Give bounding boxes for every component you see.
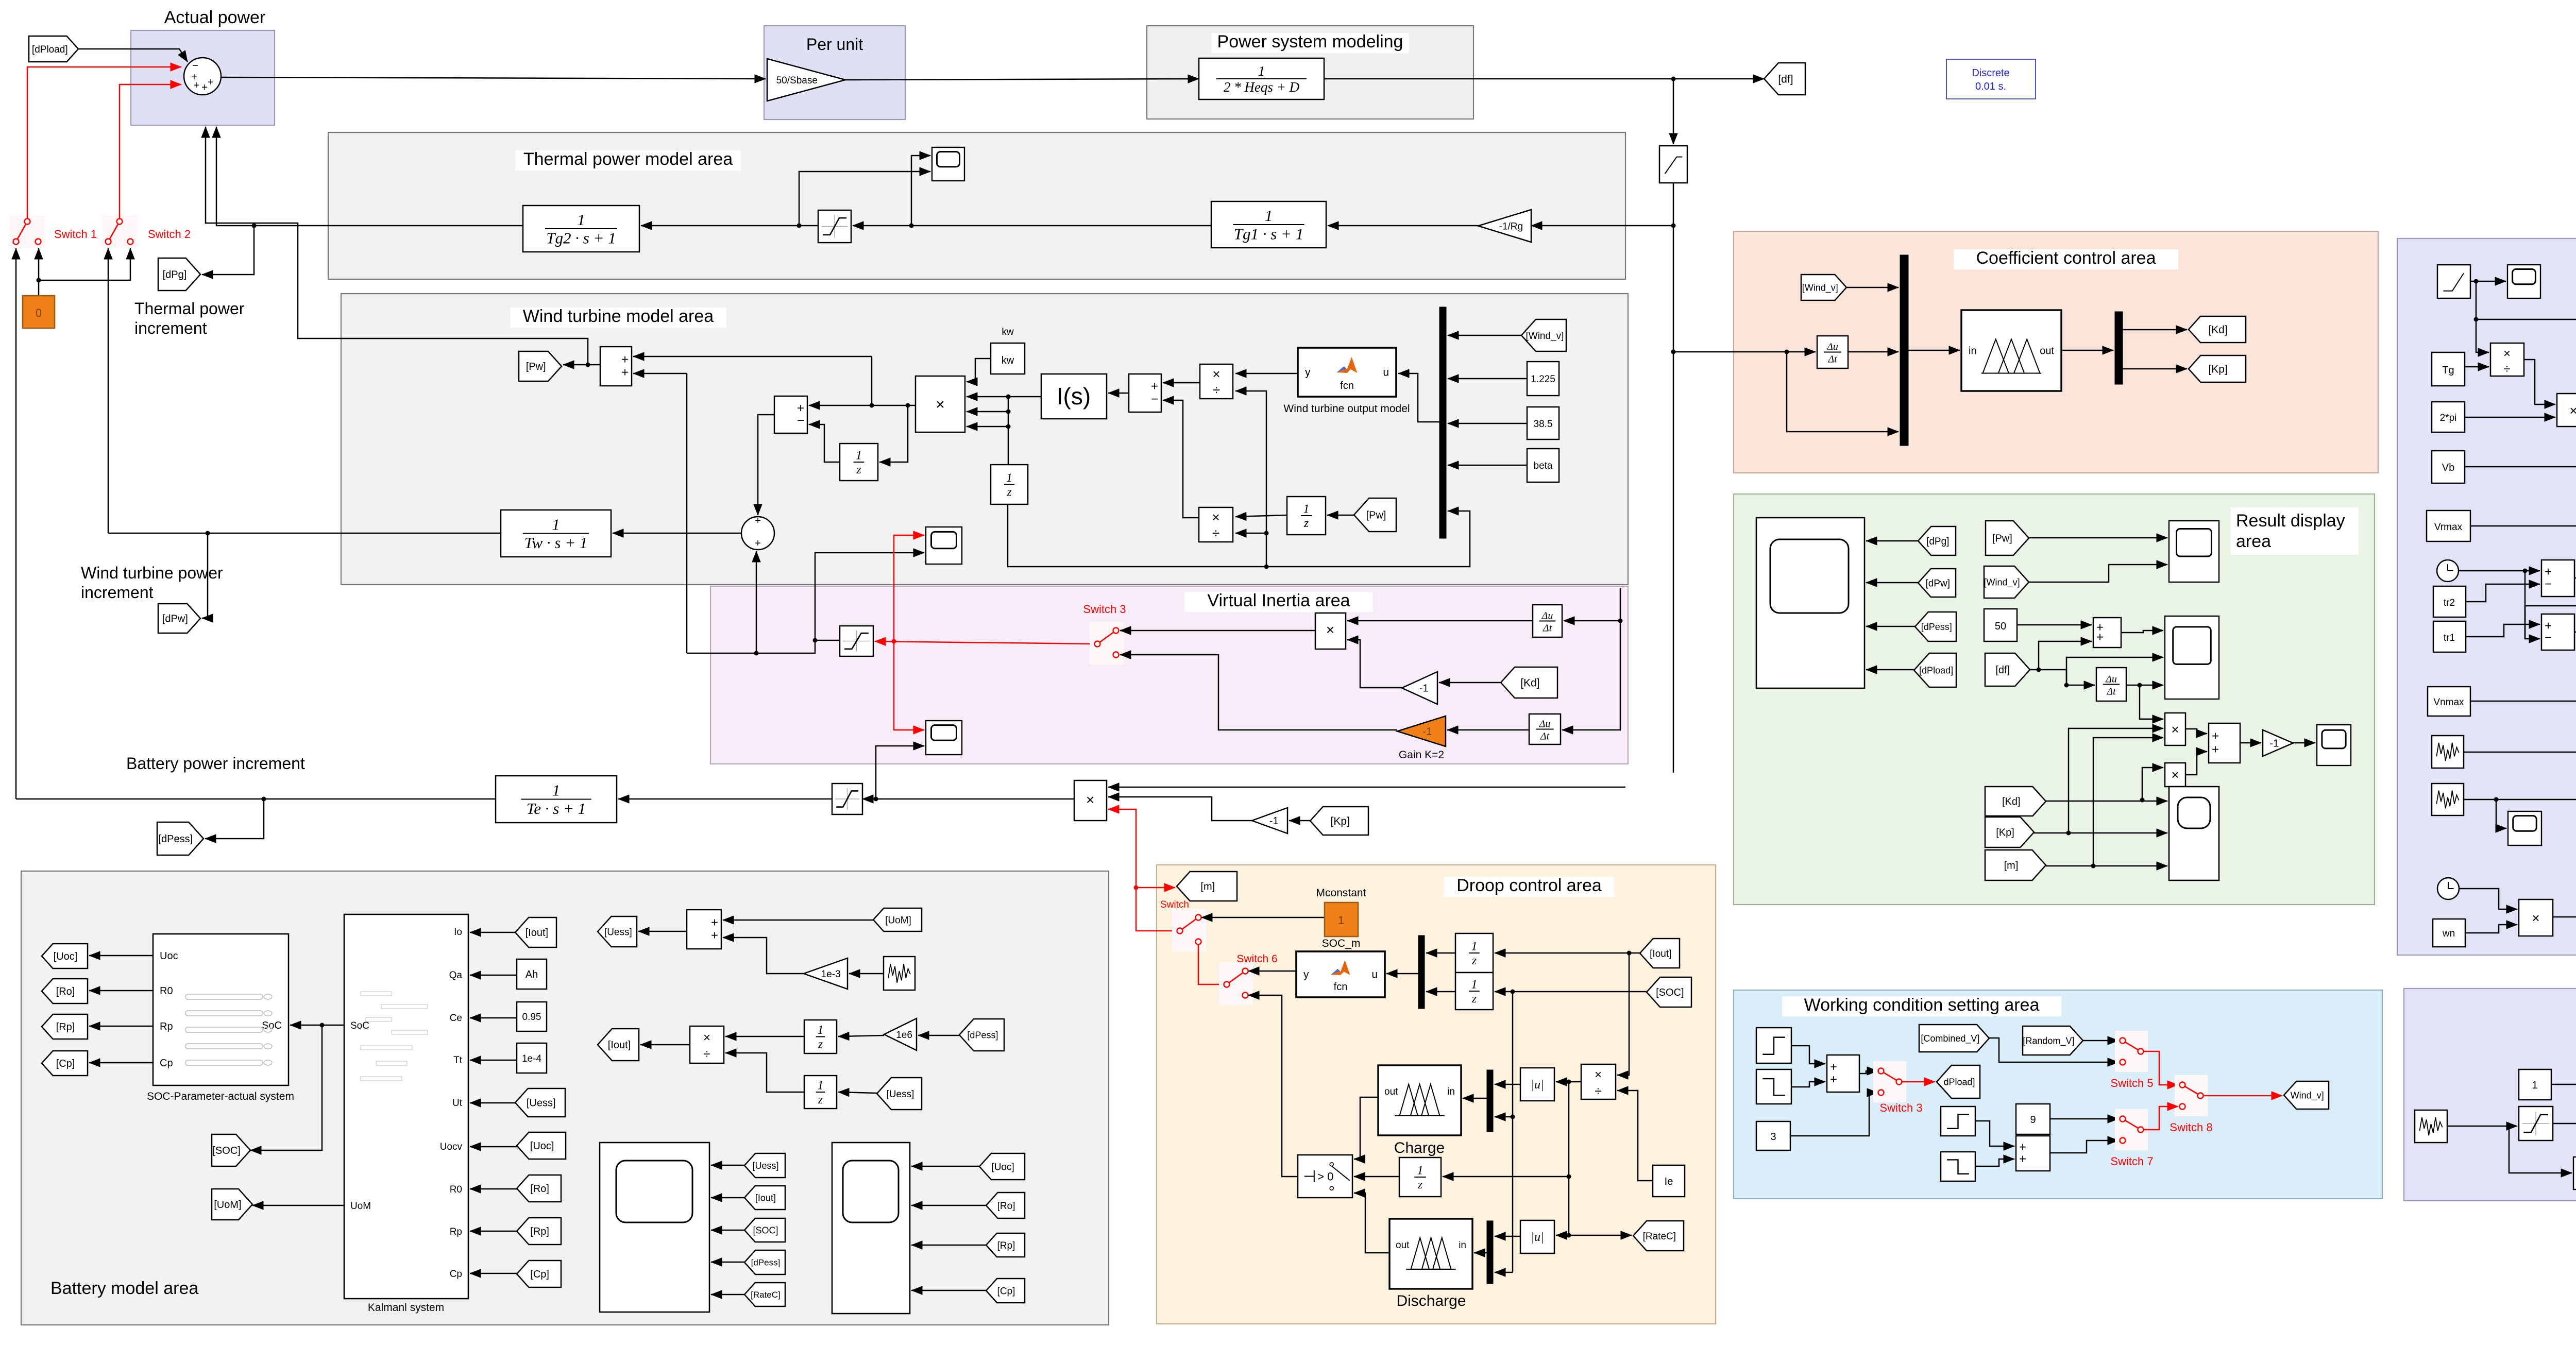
wire SOC to charge demux [1495,1116,1513,1118]
wire RandomV to switch5 [2083,1040,2119,1042]
from tag [dPload] result [1914,653,1956,687]
from tag [Kd] virtual [1501,667,1557,698]
svg-text:1: 1 [1417,1164,1423,1178]
svg-text:Switch 3: Switch 3 [1879,1101,1922,1114]
wire mult in2 [967,396,1008,398]
scope random [2573,1157,2576,1189]
product x virtual [1315,613,1346,649]
label: Result display area [2231,507,2359,555]
product x result 1 [2165,713,2185,745]
from tag [Wind_v] wind [1521,319,1566,351]
svg-text:Vrmax: Vrmax [2434,522,2463,533]
svg-text:[Iout]: [Iout] [755,1193,776,1203]
manual switch Switch 3 working [1873,1061,1906,1102]
goto tag [Kd] coeff [2189,316,2246,343]
saturation thermal [818,210,851,243]
wire x battery to saturation [862,798,1074,800]
svg-text:÷: ÷ [1212,525,1219,541]
wire dudt coeff to mux [1848,351,1899,353]
svg-text:+: + [1151,380,1158,394]
wire div to RateC [1569,1235,1632,1236]
svg-text:Mconstant: Mconstant [1316,887,1366,899]
junction sumcircle bottom [754,651,759,656]
wire Vnmax to x c3 [2470,701,2576,706]
wire switch2 leg to Tw line [108,256,109,533]
noise block battery [884,957,915,990]
goto tag [dPess] [157,822,204,855]
svg-text:[SOC]: [SOC] [753,1225,778,1235]
junction zinv tap [906,403,910,408]
wire sat out to scope [815,553,924,640]
wire 1e-3 gain to sum in2 [723,938,804,974]
constant wn [2433,919,2465,947]
wire charge out to gt0 [1354,1097,1378,1159]
area: Working condition setting area [1734,990,2382,1199]
svg-text:1: 1 [818,1079,824,1093]
wire sumr to scope r2 [2121,631,2163,633]
svg-text:[dPload]: [dPload] [1919,665,1953,675]
junction SOC charge [1511,1115,1515,1119]
svg-text:[RateC]: [RateC] [751,1290,781,1300]
wire sumc3 to xxd [2574,569,2576,632]
svg-text:|u|: |u| [1531,1231,1544,1244]
constant Vb [2432,451,2465,483]
junction red m [1134,886,1139,890]
product x result 2 [2165,763,2185,787]
svg-text:u: u [1371,969,1378,981]
svg-text:[Rp]: [Rp] [997,1240,1015,1251]
wire sc2a [911,1166,979,1167]
svg-text:1: 1 [1471,940,1478,954]
wire -1 to scope [2293,742,2315,744]
svg-text:[UoM]: [UoM] [214,1199,241,1211]
svg-text:-1: -1 [1419,683,1429,694]
goto tag [dPg] [158,258,200,291]
saturation virtual [840,626,873,656]
svg-text:0: 0 [36,307,42,319]
wire ramp down [2476,281,2477,319]
unit delay 1/z d2 [1455,973,1493,1010]
svg-text:1e-4: 1e-4 [522,1053,541,1064]
svg-text:Switch 2: Switch 2 [148,228,191,241]
wire sc1e [711,1294,744,1296]
wire demux to charge [1463,1098,1487,1099]
svg-text:Battery model area: Battery model area [50,1279,198,1298]
wire m to scope r4 [2046,865,2167,867]
svg-text:×: × [1086,792,1094,808]
wire red x to droop vertical [1136,876,1137,888]
svg-text:Charge: Charge [1394,1139,1445,1156]
transfer fcn 1/(Tw s+1) [501,510,611,557]
wire dudt r out [2126,685,2163,686]
wire red down to scope2 [894,641,924,730]
svg-text:-1/Rg: -1/Rg [1499,221,1523,232]
svg-text:+: + [2212,742,2219,756]
wire black into scope2 [876,746,924,799]
wire sat out chain [687,640,840,653]
wire tr1 to sum c3 [2466,624,2540,637]
svg-text:Wind_v]: Wind_v] [2291,1090,2324,1101]
svg-text:×: × [2503,347,2511,361]
gain -1 result [2263,730,2293,756]
constant 0 orange [23,296,55,328]
svg-text:−: − [1151,392,1158,406]
svg-text:2*pi: 2*pi [2440,413,2457,423]
wire switch8 to Windv [2204,1095,2282,1097]
svg-text:1: 1 [1006,471,1012,485]
mux coeff [1900,255,1908,446]
svg-text:Tg1 · s + 1: Tg1 · s + 1 [1234,225,1303,243]
svg-text:Switch 1: Switch 1 [54,228,97,241]
wire sc1a [711,1165,744,1166]
svg-text:Switch 5: Switch 5 [2110,1077,2153,1089]
junction mult out [870,403,874,408]
junction SoC [320,1023,325,1028]
wire sc2c [911,1245,986,1246]
wire into x1 a [2140,719,2163,720]
wire 9 to switch7 [2050,1118,2119,1120]
svg-text:[dPess]: [dPess] [751,1258,781,1268]
svg-text:×: × [2569,403,2576,418]
svg-text:Tw · s + 1: Tw · s + 1 [524,534,588,552]
wire sum to Uess [638,931,687,932]
wire w3 to sum2w [1975,1121,2014,1146]
from tag [Rp] kalman [517,1218,561,1245]
svg-text:×: × [1326,622,1334,638]
svg-text:1: 1 [2532,1080,2537,1091]
junction noise2 [2494,797,2499,802]
saturation battery [832,784,862,814]
manual switch Switch 2 [102,215,137,248]
svg-text:Actual power: Actual power [164,8,266,27]
junction df 2 [2064,683,2069,688]
ramp block combined [2437,265,2470,298]
svg-text:+: + [797,401,804,415]
from tag [Rp] sc2 [986,1233,1025,1257]
svg-text:1: 1 [577,211,585,229]
wire sc2b [911,1205,986,1206]
wire Ie to xdiv droop [1617,1091,1653,1181]
wire vert to dudt1 [1564,588,1620,621]
svg-text:Ie: Ie [1665,1176,1673,1187]
wire noise2 to scope c4 [2496,799,2506,828]
junction kd [2140,798,2145,803]
sum block torque [774,396,807,433]
subsystem SOC-Parameter-actual system [153,934,289,1085]
wire x1 to sum [2185,729,2207,734]
wire dudt2 to orange gain [1447,729,1529,731]
from tag [m] result [1985,850,2046,880]
wire xdiv top to sum3 [1163,382,1200,384]
svg-text:[Ro]: [Ro] [530,1183,549,1195]
constant beta [1527,449,1559,482]
svg-text:Rp: Rp [160,1021,173,1032]
wire zero to switch2 [39,248,130,280]
svg-text:+: + [621,352,629,366]
from tag [Kp] result [1985,817,2034,847]
svg-text:[dPw]: [dPw] [162,614,188,625]
svg-text:Working condition setting area: Working condition setting area [1804,995,2040,1015]
svg-text:×: × [1595,1068,1602,1082]
clock combined 2 [2437,878,2459,899]
svg-text:kw: kw [1002,355,1014,366]
svg-text:[Iout]: [Iout] [1650,948,1671,959]
svg-text:dPload]: dPload] [1943,1077,1975,1087]
junction div zd3 [1567,1174,1571,1179]
area: Wind turbine model area [341,294,1628,585]
svg-text:[Kd]: [Kd] [1520,677,1539,689]
goto tag [Rp] [42,1014,88,1039]
svg-text:1: 1 [552,516,560,534]
wire Pw to scope r1 [2029,537,2167,539]
svg-text:Δu: Δu [1539,719,1551,730]
junction clock [2523,569,2528,573]
wire demux to Kp [2123,368,2187,370]
svg-text:[Ro]: [Ro] [56,986,75,997]
svg-text:[RateC]: [RateC] [1643,1231,1676,1242]
junction div tap 1 [1264,565,1269,569]
junction dudt col [1618,619,1623,623]
svg-text:Battery power increment: Battery power increment [126,754,305,773]
gain -1/Rg [1478,210,1531,242]
wire df right [2039,670,2095,685]
wire tr2 to sum c2 [2466,584,2540,602]
manual switch Switch 5 [2115,1031,2148,1072]
wire Ut [470,1102,515,1104]
gain -1 orange Gain K=2 [1397,716,1446,746]
label: Working condition setting area [1782,996,2061,1016]
svg-text:[df]: [df] [1778,74,1793,86]
svg-text:[Iout]: [Iout] [526,927,548,939]
junction ramp2 [2474,317,2479,322]
svg-text:Thermal power model area: Thermal power model area [523,149,733,169]
wire kp col to x1 [2069,728,2163,833]
svg-text:wn: wn [2442,928,2455,939]
wire sumcircle to Tw [613,533,741,534]
svg-text:[dPess]: [dPess] [967,1030,998,1040]
wire abs1 to demux [1495,1084,1520,1085]
wire saturation to Tg2 [641,225,818,227]
svg-text:Ut: Ut [452,1098,463,1109]
svg-text:50/Sbase: 50/Sbase [776,75,818,86]
svg-text:[Rp]: [Rp] [530,1226,549,1237]
svg-text:z: z [856,463,861,476]
product xdiv bottom [1199,507,1233,542]
svg-text:×: × [2171,767,2179,782]
area: Virtual Inertia area [710,586,1628,764]
transfer fcn 1/(2*Heqs+D) [1199,58,1324,99]
area: Actual power box [131,30,275,125]
wire CombinedV to switch5 [1989,1038,2119,1062]
fuzzy block Charge [1378,1065,1461,1135]
noise block random [2415,1110,2447,1143]
svg-text:SoC: SoC [350,1020,369,1031]
constant Mconstant orange [1325,903,1358,937]
svg-text:out: out [2040,346,2054,357]
svg-text:−: − [797,414,804,428]
solver badge Discrete 0.01 s [1946,59,2036,99]
from tag [UoM] battery [873,908,922,931]
wire Cp [89,1062,153,1064]
junction Pw [586,363,590,367]
from tag [Iout] sc [744,1186,785,1210]
junction ramp [2474,279,2479,284]
wire sum2w to switch7 [2050,1140,2119,1153]
svg-text:tr1: tr1 [2444,633,2455,643]
svg-text:1: 1 [1471,978,1478,992]
manual switch Switch 4 [1172,909,1206,951]
wire zinv a to sum2 [809,424,840,462]
scope result 4 [2169,787,2219,880]
svg-text:Switch 8: Switch 8 [2170,1121,2212,1134]
sum working 2 [2016,1136,2050,1171]
svg-text:1e-3: 1e-3 [821,969,841,980]
sum working 1 [1827,1055,1859,1092]
svg-text:−: − [2545,631,2552,645]
sum combined 3 [2541,614,2574,650]
svg-text:I(s): I(s) [1057,383,1091,410]
wire vert to dudt2 [1562,621,1620,730]
svg-text:[Kd]: [Kd] [2002,796,2021,808]
wire zd1 to mux [1426,952,1455,954]
wire div to zd3 [1443,1176,1569,1178]
wire Tw line to dPw [202,533,208,618]
wire to gain -1/Rg [1531,225,1673,227]
svg-text:[Uoc]: [Uoc] [991,1162,1014,1172]
svg-text:+: + [2096,631,2104,644]
wire Ro [89,990,153,992]
label: Wind turbine model area [511,308,726,328]
svg-text:[Pw]: [Pw] [526,361,546,372]
wire TF output to df [1324,78,1764,80]
transfer fcn 1/(Tg2 s+1) [523,206,639,252]
goto tag [UoM] [212,1189,252,1220]
wire Rpk [470,1231,517,1232]
scope result big [1756,518,1865,688]
wire red to m tag [1136,887,1175,889]
wire switch1 left leg [15,248,17,259]
wire Tw output long left [108,533,501,534]
svg-text:z: z [1303,517,1309,530]
svg-text:1: 1 [1265,207,1273,225]
scope result 3 [2317,725,2351,765]
constant 50 [1984,609,2017,641]
wire sc1c [711,1230,744,1231]
unit delay 1/z c [1287,497,1326,535]
wire gain to Tg1 [1328,225,1478,227]
svg-text:[Cp]: [Cp] [530,1269,549,1280]
svg-text:×: × [703,1031,710,1045]
junction main output [1671,77,1676,81]
wire sum output to Per unit gain [221,77,766,79]
label: Virtual Inertia area [1184,592,1373,612]
svg-text:+: + [621,366,629,380]
svg-text:+: + [193,80,199,91]
transfer fcn 1/(Tg1 s+1) [1211,201,1326,248]
wire rdPw [1866,582,1918,584]
wire 38.5 to mux [1448,423,1527,424]
wire SoC link [290,1025,344,1026]
svg-text:1e6: 1e6 [896,1030,912,1041]
wire w4 to sum2w [1975,1159,2014,1166]
goto tag [Pw] wind [519,351,562,381]
wire to goto dPg [202,226,254,275]
svg-text:[Uess]: [Uess] [752,1161,778,1171]
junction Is 3 [1006,424,1011,429]
wire ramp to scope c1 [2470,281,2506,282]
wire Tg1 to saturation [853,225,1211,227]
sum combined 2 [2541,560,2574,597]
wire black from gt0 [1248,995,1298,1177]
manual switch Switch 8 [2175,1075,2208,1116]
wire zinv2 to xdiv [725,1053,804,1092]
wire noise r to sat [2447,1126,2517,1127]
svg-text:UoM: UoM [350,1201,371,1212]
from tag [dPload] [29,36,78,62]
svg-text:Δu: Δu [1541,610,1553,622]
svg-text:in: in [1447,1086,1455,1097]
area: Result display area [1734,494,2375,905]
wire main to dudt coeff [1673,351,1816,353]
wire xdiv bottom to sum3 [1163,400,1199,518]
wire div to abs2 [1556,1235,1569,1236]
wire Kd to gain [1439,682,1501,684]
svg-text:y: y [1305,367,1311,379]
from tag [dPess] result [1915,612,1956,641]
wire xdiv c to x c [2524,360,2555,404]
wire clock line y1176 [2525,606,2576,639]
svg-text:Tt: Tt [453,1055,463,1066]
wire main vertical [1673,79,1674,144]
junction dPw [206,531,210,536]
svg-text:[SOC]: [SOC] [212,1145,240,1156]
wire red droop to x [1108,809,1136,876]
sum result big [2209,723,2240,763]
gain 50/Sbase Per unit [767,59,845,101]
svg-text:[Uoc]: [Uoc] [54,951,78,962]
junction coeff [1671,350,1676,354]
svg-text:1.225: 1.225 [1531,374,1555,385]
svg-text:Discrete: Discrete [1972,67,2009,79]
scope wind [926,527,962,564]
wire switch3w to dPload [1902,1081,1935,1083]
wire long y620 [2476,319,2576,381]
scope result 1 [2169,521,2219,582]
svg-text:Cp: Cp [450,1269,462,1280]
svg-text:in: in [1459,1240,1466,1251]
svg-text:×: × [936,396,945,413]
wire Qa [470,975,517,976]
wire noise2 to sum c4 [2464,799,2576,801]
svg-text:[Cp]: [Cp] [56,1058,75,1069]
svg-text:+: + [711,915,718,929]
wire UoM to sum in1 [723,920,873,921]
from tag [dPg] result [1918,526,1956,555]
saturation random [2519,1106,2553,1140]
svg-text:|u|: |u| [1531,1078,1544,1092]
wire w2 to sum [1791,1082,1825,1087]
wire Is out to mult dots [1008,396,1041,398]
constant Ie [1653,1165,1685,1197]
svg-text:out: out [1384,1086,1398,1097]
wire zero const feed [38,280,40,296]
svg-text:Uocv: Uocv [440,1142,463,1152]
from tag [Wind_v] coeff [1801,275,1846,300]
wire x2 to sum [2185,752,2207,775]
svg-text:×: × [2171,722,2179,737]
svg-text:[Wind_v]: [Wind_v] [1526,331,1564,342]
goto tag [df] [1764,63,1805,95]
